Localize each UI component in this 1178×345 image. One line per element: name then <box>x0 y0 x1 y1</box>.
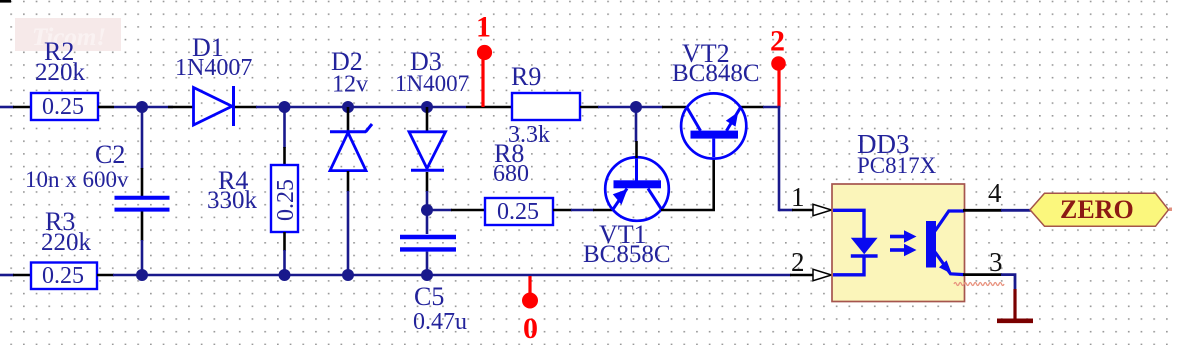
wire R8 branch from junction <box>427 209 452 212</box>
svg-text:220k: 220k <box>41 229 92 256</box>
wire R4 branch lower <box>283 250 286 275</box>
resistor R2 <box>31 93 98 120</box>
svg-text:4: 4 <box>988 178 1002 208</box>
wire D3/C5 branch <box>426 191 429 234</box>
pin D3 top <box>426 107 429 133</box>
pin D3 bottom <box>426 172 429 192</box>
svg-text:0.25: 0.25 <box>42 263 84 289</box>
svg-text:ZERO: ZERO <box>1060 195 1134 224</box>
node junction top R4 <box>279 101 291 113</box>
pin VT1 base wire <box>593 209 614 212</box>
svg-text:2: 2 <box>770 25 785 58</box>
wire VT1 collector to VT2 base <box>661 209 715 212</box>
svg-text:BC858C: BC858C <box>583 241 671 268</box>
node junction bottom D2 <box>342 269 354 281</box>
svg-text:3: 3 <box>989 247 1003 277</box>
DD3 led diode <box>851 238 878 256</box>
svg-text:1: 1 <box>791 182 805 212</box>
svg-text:1: 1 <box>476 11 491 44</box>
top frame tick <box>0 0 11 3</box>
pin 4 black <box>963 209 1002 212</box>
transistor VT1 <box>605 156 669 221</box>
pin R9 right <box>580 106 599 109</box>
pin C2 top <box>141 168 144 196</box>
svg-text:C5: C5 <box>414 282 444 311</box>
svg-text:1N4007: 1N4007 <box>175 55 252 81</box>
svg-text:12v: 12v <box>332 72 368 98</box>
DD3 coupling arrow upper <box>890 230 917 243</box>
wire pin4 to port <box>1001 209 1031 212</box>
wire to node2 <box>763 106 780 109</box>
wire vertical node2 down <box>778 106 781 212</box>
svg-text:BC848C: BC848C <box>672 60 760 87</box>
svg-text:0.47u: 0.47u <box>413 309 467 335</box>
pin R2 right <box>98 106 114 109</box>
pin 2 triangle <box>813 269 832 280</box>
pin VT2 right <box>740 106 764 109</box>
pin R8 left <box>451 209 485 212</box>
wire <box>571 209 594 212</box>
wire pin1 corner <box>779 209 793 212</box>
pin 3 black <box>963 273 1002 276</box>
wire C2 branch upper <box>141 107 144 169</box>
wire pin3 corner <box>1001 275 1015 290</box>
wire <box>256 106 466 109</box>
svg-text:680: 680 <box>493 161 529 187</box>
pin R2 left <box>13 106 31 109</box>
svg-text:C2: C2 <box>95 140 125 169</box>
node junction top C2 <box>136 101 148 113</box>
pin C2 bottom <box>141 212 144 242</box>
svg-text:0.25: 0.25 <box>273 179 299 221</box>
pin R4 top <box>283 147 286 165</box>
pin VT1 top <box>635 141 638 158</box>
wire <box>598 106 663 109</box>
capacitor C5 <box>400 237 456 249</box>
pin VT2 base lead <box>712 158 715 210</box>
capacitor C2 <box>115 198 170 210</box>
port ZERO <box>1030 193 1169 226</box>
DD3 phototransistor <box>926 211 964 275</box>
svg-text:0.25: 0.25 <box>497 199 539 225</box>
pin D1 cathode <box>235 106 257 109</box>
pin R9 left <box>466 106 512 109</box>
node 0 red stub <box>528 276 531 296</box>
node 2 red stub <box>777 67 780 107</box>
node junction top D2 <box>342 101 354 113</box>
error squiggle <box>954 283 1004 286</box>
svg-text:R9: R9 <box>511 62 541 91</box>
svg-text:2: 2 <box>791 247 805 277</box>
svg-text:330k: 330k <box>207 187 258 214</box>
resistor R3 <box>31 263 97 290</box>
pin VT2 left <box>662 106 688 109</box>
svg-text:220k: 220k <box>35 59 86 86</box>
node junction top VT1 <box>630 101 642 113</box>
node 2 dot <box>771 56 786 71</box>
pin R3 left <box>13 274 31 277</box>
ground <box>997 289 1033 321</box>
svg-text:PC817X: PC817X <box>857 153 937 178</box>
pin R3 right <box>97 274 114 277</box>
DD3 coupling arrow lower <box>890 244 917 257</box>
wire <box>114 106 173 109</box>
svg-text:1N4007: 1N4007 <box>395 71 469 96</box>
node junction top D3 <box>421 101 433 113</box>
svg-text:10n x 600v: 10n x 600v <box>25 167 129 192</box>
resistor R4 <box>271 165 299 232</box>
pin 1 black <box>792 209 814 212</box>
pin 1 triangle <box>813 204 832 215</box>
wire D2 branch lower <box>347 191 350 275</box>
optocoupler DD3 body <box>832 184 965 302</box>
pin D1 anode <box>168 106 194 109</box>
resistor R9 <box>512 93 580 120</box>
transistor VT2 <box>681 93 746 158</box>
svg-text:0: 0 <box>523 312 538 345</box>
pin 2 black <box>790 274 814 277</box>
pin D2 bottom <box>347 171 350 192</box>
node 1 red stub <box>481 57 484 107</box>
wire C5 lower <box>426 252 429 275</box>
diode D1 <box>194 86 234 126</box>
node 0 dot <box>522 293 538 309</box>
node 1 dot <box>477 45 492 60</box>
wire VT1 emitter to top <box>635 107 638 142</box>
watermark <box>15 18 121 51</box>
node junction bottom C5 <box>421 269 433 281</box>
pin D2 top <box>347 107 350 132</box>
node junction R8 branch <box>421 204 433 216</box>
svg-text:0.25: 0.25 <box>42 94 84 120</box>
pin R4 bottom <box>283 232 286 251</box>
port tip mark <box>1169 208 1172 212</box>
node junction bottom C2 <box>136 269 148 281</box>
diode D3 <box>409 132 446 171</box>
wire bottom main <box>113 274 791 277</box>
pin R8 right <box>553 209 572 212</box>
wire C2 branch lower <box>141 240 144 275</box>
resistor R8 <box>485 198 553 225</box>
wire bottom left <box>0 274 14 277</box>
wire R4 branch upper <box>283 107 286 148</box>
node junction bottom R4 <box>279 269 291 281</box>
zener D2 <box>330 124 372 171</box>
wire top left <box>0 106 14 109</box>
DD3 led wiring <box>833 210 864 274</box>
